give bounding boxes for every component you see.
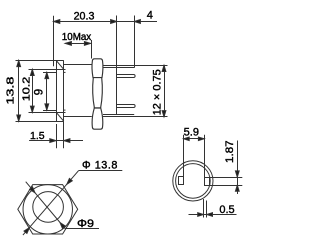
svg-text:0.5: 0.5 [219, 204, 234, 216]
nut flange left edge [56, 60, 58, 121]
ext line bottom for dim 9 [43, 110, 56, 112]
body top edge right segment + 12x0.75 ext line [103, 65, 168, 67]
ext line right for dim 1.5 [63, 121, 65, 148]
svg-text:1.5: 1.5 [30, 130, 45, 142]
svg-text:4: 4 [147, 9, 153, 21]
nut chamfer diagonal top [56, 60, 64, 69]
nut flange chamfer line top + 10.2 ext line [29, 69, 66, 71]
pin 2 [117, 105, 135, 108]
svg-text:5.9: 5.9 [184, 127, 199, 139]
svg-text:Φ 13.8: Φ 13.8 [82, 160, 118, 172]
bushing bottom cap [92, 108, 103, 129]
svg-text:10Max: 10Max [62, 32, 92, 43]
ext line right of 10Max [91, 40, 93, 59]
svg-text:20.3: 20.3 [74, 10, 95, 22]
bushing top cap [92, 59, 103, 78]
hex nut outline [18, 185, 78, 234]
dim 10Max dimension line [65, 43, 90, 45]
rear view left lug [179, 177, 184, 185]
dim phi13.8 leader underline [78, 170, 122, 172]
svg-text:1.87: 1.87 [224, 140, 236, 163]
body top edge left segment [64, 64, 92, 66]
dim 1.5 dimension line [29, 140, 83, 142]
ext lines for dim 5.9 [183, 135, 185, 177]
ext lines for dim 0.5 [203, 199, 205, 218]
svg-text:12 × 0.75: 12 × 0.75 [152, 69, 164, 115]
ext line shared 20.3/4 and rear face of body [116, 16, 118, 115]
rear block bottom edge [103, 114, 134, 116]
dim phi9 leader diagonal [26, 182, 66, 229]
nut chamfer diagonal bottom [56, 112, 64, 121]
ext line top for dim 9 [43, 72, 56, 74]
dim 20.3 dimension line [54, 21, 157, 23]
svg-text:9: 9 [33, 89, 45, 95]
nut flange right edge [63, 60, 65, 121]
dim phi13.8 leader diagonal [23, 171, 79, 235]
nut flange bottom edge + 13.8 ext line [16, 121, 64, 123]
dim 9 dimension line [46, 72, 48, 110]
pin 1 [117, 75, 135, 78]
circle 13.8 outer [23, 185, 72, 234]
dim 1.87 lower arrow [237, 185, 239, 194]
ext line left for dim 1.5 [56, 124, 58, 148]
ext line left of 20.3 [53, 16, 55, 66]
body bottom edge right segment + 12x0.75 ext line [103, 116, 168, 118]
body bottom edge left segment [64, 116, 92, 118]
rear view outer circle [173, 161, 213, 201]
svg-text:13.8: 13.8 [5, 76, 17, 104]
dim 4 arrow [134, 20, 140, 24]
dim 0.5 dimension line [189, 214, 237, 216]
nut flange chamfer line bottom + 10.2 ext line [29, 112, 66, 114]
svg-text:Φ9: Φ9 [77, 218, 94, 230]
circle 9 inner [33, 192, 64, 223]
rear view right lug [205, 178, 210, 186]
ext lines for dim 1.87 [209, 177, 242, 179]
dim 10.2 dimension line [32, 69, 34, 112]
dim 12x0.75 dimension line [164, 65, 166, 117]
dim 5.9 dimension line [183, 138, 204, 140]
rear view inner circle [176, 164, 211, 199]
dim phi9 leader underline [66, 228, 100, 230]
rear block top edge [104, 67, 135, 69]
nut flange top edge + 13.8 ext line [16, 60, 64, 62]
dim 13.8 dimension line [18, 60, 20, 121]
bushing middle barrel [93, 78, 103, 108]
dim 1.87 dimension line upper [237, 141, 239, 186]
svg-text:10.2: 10.2 [21, 77, 33, 102]
ext line right of 4 [134, 16, 136, 68]
